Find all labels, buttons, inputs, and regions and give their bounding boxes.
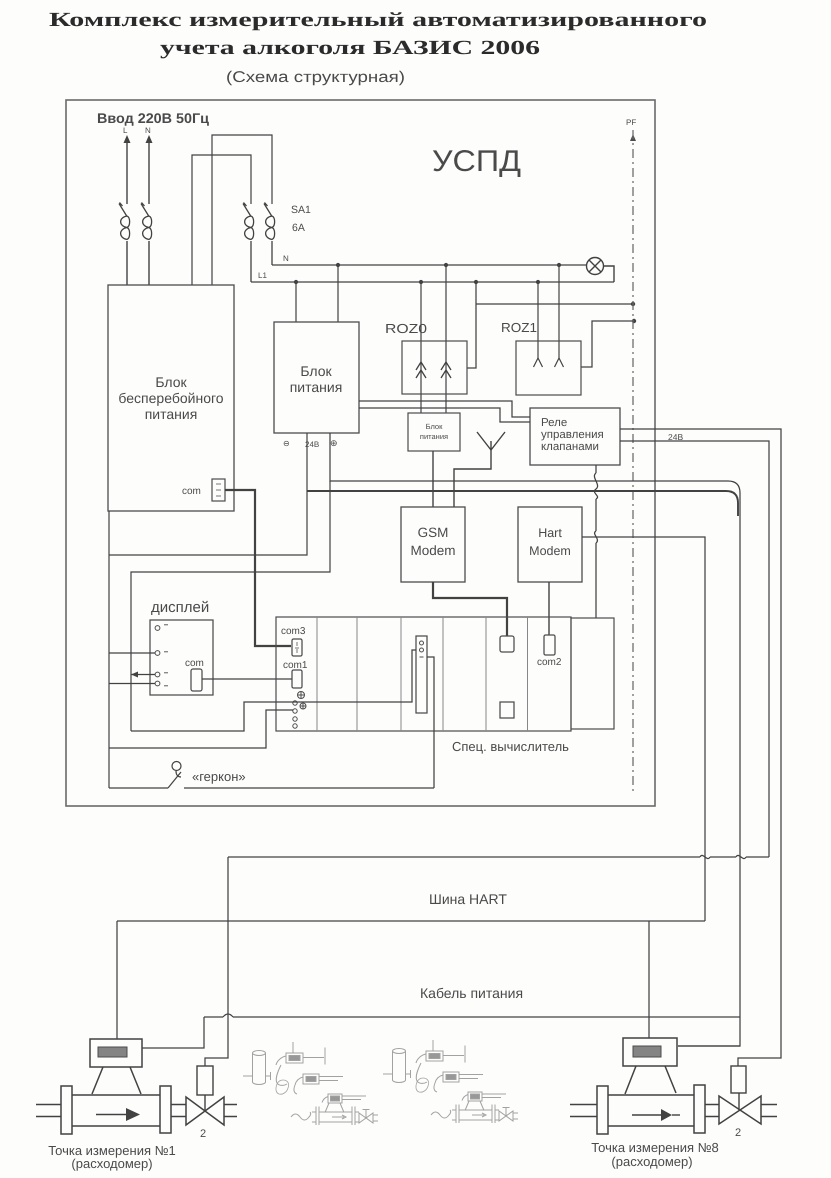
- breaker SA1 left pole: [243, 203, 254, 283]
- svg-text:бесперебойного: бесперебойного: [118, 390, 223, 406]
- wire L1 through ROZ0 to small PSU: [420, 282, 422, 413]
- junction dots on buses: [294, 263, 561, 284]
- svg-text:Комплекс измерительный автомат: Комплекс измерительный автоматизированно…: [49, 9, 707, 31]
- Hart modem box: [518, 507, 582, 582]
- svg-text:Блок: Блок: [155, 374, 187, 390]
- wire loop outer (UPS to SA1 right pole): [212, 135, 272, 285]
- ROZ1 Y contacts: [534, 358, 564, 367]
- ground pin: [298, 692, 305, 699]
- svg-text:Modem: Modem: [410, 543, 455, 558]
- svg-text:управления: управления: [541, 429, 604, 441]
- svg-text:Блок: Блок: [426, 422, 443, 431]
- wire relay bottom to computer: [595, 465, 597, 618]
- svg-text:com2: com2: [537, 657, 562, 668]
- faded middle pictogram B: [383, 1040, 518, 1123]
- svg-text:N: N: [283, 254, 289, 263]
- wire UPS left drop: [108, 511, 110, 788]
- ROZ0 box: [402, 341, 467, 394]
- svg-text:com1: com1: [283, 660, 308, 671]
- wire Hart modem to HART bus: [582, 537, 705, 921]
- wire N to ROZ1: [558, 265, 560, 358]
- wire display com to com1: [202, 678, 292, 680]
- breaker SA1 right pole: [264, 203, 275, 266]
- svg-text:N: N: [145, 126, 151, 135]
- wire small PSU to GSM: [432, 451, 434, 507]
- power supply box (Блок питания): [274, 322, 359, 433]
- computer box (Спец. вычислитель): [276, 617, 571, 731]
- svg-text:Hart: Hart: [538, 526, 562, 540]
- svg-text:2: 2: [200, 1128, 206, 1140]
- svg-text:⊕: ⊕: [330, 438, 338, 448]
- wire relay out upper 24V to valve 8: [620, 429, 781, 1066]
- svg-text:дисплей: дисплей: [151, 599, 209, 616]
- wire UPS com to com3 (thick): [225, 490, 291, 646]
- wire PSU to relay lower: [359, 408, 530, 422]
- spare pad on computer: [500, 702, 514, 718]
- svg-text:Кабель питания: Кабель питания: [420, 985, 523, 1001]
- flow arrow 1: [96, 1114, 128, 1116]
- flow meter 1 pipe: [36, 1086, 186, 1134]
- svg-text:6A: 6A: [292, 222, 305, 234]
- svg-text:PF: PF: [626, 118, 636, 127]
- HART bus line: [117, 920, 705, 922]
- svg-text:(расходомер): (расходомер): [71, 1156, 152, 1171]
- svg-text:L: L: [123, 126, 128, 135]
- USPD outer box: [66, 100, 655, 806]
- svg-text:com: com: [182, 486, 201, 497]
- wire N to power supply: [337, 265, 339, 322]
- wire ROZ0 right to PF: [467, 282, 633, 368]
- small PSU box (Блок питания): [408, 413, 460, 451]
- flow meter 1 head: [90, 1039, 142, 1094]
- wire PSU to relay upper: [359, 401, 530, 417]
- svg-text:SA1: SA1: [291, 204, 311, 216]
- svg-text:(Схема структурная): (Схема структурная): [226, 69, 405, 86]
- antenna: [454, 432, 505, 507]
- internal connector strip: [416, 636, 427, 713]
- svg-text:⊖: ⊖: [283, 439, 290, 448]
- bus N: [272, 264, 587, 266]
- svg-text:GSM: GSM: [418, 525, 449, 540]
- wire cable to meter1 head: [142, 1017, 204, 1048]
- computer module dividers: [317, 617, 528, 731]
- wire L1 to ROZ1: [537, 282, 539, 358]
- flow meter 8 pipe: [570, 1085, 719, 1134]
- wire left drop to display pin 2: [109, 652, 155, 654]
- svg-text:Шина HART: Шина HART: [429, 891, 507, 907]
- wire loop inner (UPS to SA1 left pole): [192, 155, 251, 285]
- wire reed box to module pin: [109, 710, 293, 748]
- svg-text:L1: L1: [258, 271, 267, 280]
- lamp HL: [587, 258, 615, 283]
- flow arrow 8: [632, 1114, 662, 1116]
- svg-text:УСПД: УСПД: [432, 145, 521, 178]
- UPS box (Блок бесперебойного питания): [108, 285, 234, 511]
- power pair wire thick: [307, 491, 738, 516]
- svg-text:(расходомер): (расходомер): [611, 1154, 692, 1169]
- wire N input with arrow: [148, 140, 150, 285]
- flow meter 8 head: [623, 1038, 677, 1094]
- svg-text:питания: питания: [145, 406, 198, 422]
- wire HART to meter8 head: [648, 921, 650, 1038]
- module pins: [293, 701, 306, 728]
- valve 1 body: [186, 1097, 224, 1125]
- wire to display pin 3 with arrow: [131, 674, 155, 676]
- svg-text:Ввод 220В 50Гц: Ввод 220В 50Гц: [97, 110, 209, 126]
- power cable line: [204, 1016, 740, 1018]
- wire cable to meter8 head: [678, 1045, 740, 1047]
- svg-text:ROZ1: ROZ1: [501, 320, 537, 335]
- breaker QF L (blade + thermal curls): [119, 203, 130, 240]
- wire L input with arrow: [126, 140, 128, 285]
- svg-text:питания: питания: [420, 432, 448, 441]
- wire N through ROZ0 to small PSU: [445, 265, 447, 413]
- wire PSU minus down-left: [109, 433, 330, 731]
- wire GSM to computer pad (thick): [433, 582, 507, 636]
- svg-text:com: com: [185, 658, 204, 669]
- GSM modem box: [401, 507, 465, 582]
- hop marks on 857: [700, 855, 746, 858]
- wire L1 to power supply: [295, 282, 297, 322]
- ROZ1 box: [516, 341, 581, 395]
- breaker QF N (blade + thermal curls): [141, 203, 152, 240]
- valve relay box (Реле управления клапанами): [530, 408, 620, 465]
- wire HART to meter1 head: [116, 921, 118, 1039]
- com2 connector: [544, 635, 555, 655]
- svg-text:com3: com3: [281, 626, 306, 637]
- power pair wire thin (PSU 24V to cable): [330, 433, 740, 1046]
- svg-text:Блок: Блок: [300, 363, 332, 379]
- faded middle pictogram A: [243, 1042, 378, 1125]
- valve 8 body: [719, 1096, 761, 1124]
- computer right section: [571, 618, 614, 729]
- svg-text:Точка измерения №8: Точка измерения №8: [591, 1140, 719, 1155]
- wire relay out lower 24V to bus 857: [620, 441, 769, 857]
- svg-text:«геркон»: «геркон»: [192, 769, 246, 784]
- svg-text:24В: 24В: [668, 432, 683, 442]
- valve 1 actuator: [197, 1066, 213, 1095]
- reed switch (геркон): [109, 762, 434, 789]
- valve 8 actuator: [731, 1066, 746, 1093]
- wire display loop to module pin strip: [131, 650, 416, 731]
- ROZ0 arrows: [416, 362, 451, 378]
- bus 24V valves (y=857): [228, 856, 769, 858]
- GSM pad on computer: [500, 636, 514, 652]
- svg-text:ROZ0: ROZ0: [385, 321, 427, 336]
- wire Hart to com2: [548, 582, 550, 635]
- wire ROZ1 right to PF: [581, 321, 634, 367]
- svg-text:Реле: Реле: [541, 417, 567, 429]
- wire 857 down to valve 1 actuator: [205, 857, 228, 1066]
- svg-text:2: 2: [735, 1127, 741, 1139]
- svg-text:Modem: Modem: [529, 544, 571, 558]
- bus L1: [251, 281, 614, 283]
- svg-text:учета алкоголя БАЗИС 2006: учета алкоголя БАЗИС 2006: [160, 37, 540, 59]
- wire left drop to display pin 4: [109, 683, 155, 685]
- wire connector strip down to reed line: [427, 657, 434, 788]
- display pins: [155, 626, 160, 686]
- svg-text:клапанами: клапанами: [541, 441, 599, 453]
- svg-text:питания: питания: [290, 379, 343, 395]
- svg-text:Спец. вычислитель: Спец. вычислитель: [452, 739, 569, 754]
